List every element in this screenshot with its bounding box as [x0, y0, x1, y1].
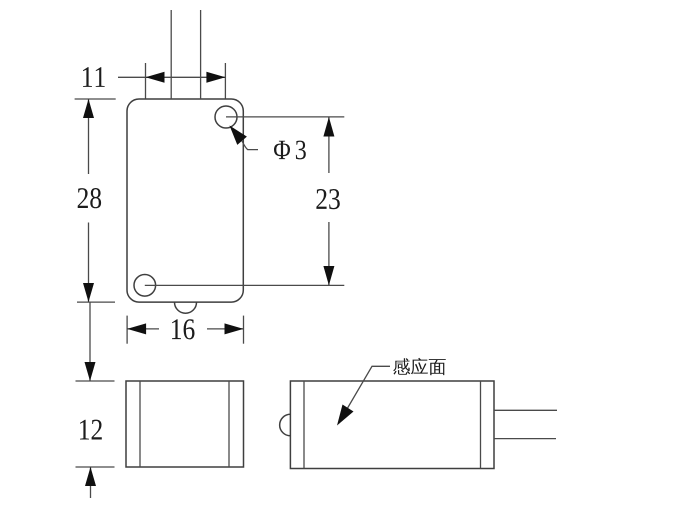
- dimension 12: value label: [80, 420, 102, 440]
- dimension 16: dimension line left segment: [127, 328, 159, 330]
- dimension 11: extension line right: [224, 63, 226, 99]
- dimension 16: left arrowhead: [127, 323, 146, 334]
- dimension 23: bottom arrowhead: [323, 266, 334, 285]
- dimension 11: dimension line: [118, 76, 225, 78]
- dimension 16: right arrowhead: [225, 323, 244, 334]
- leader arrowhead for hole diameter: [230, 126, 247, 145]
- dimension 12: lower tail line: [90, 467, 92, 498]
- dimension 12: upper arrowhead (points down): [85, 362, 96, 381]
- side view right end-cap line: [480, 381, 482, 469]
- dimension 28: top extension line: [75, 98, 116, 100]
- sensing bump on bottom edge of top view: [175, 302, 197, 313]
- leader line for hole diameter: [242, 141, 258, 150]
- dimension 12: lower arrowhead (points up): [85, 467, 96, 486]
- dimension 28: dimension line lower segment: [88, 223, 90, 303]
- side view left end-cap line: [303, 381, 305, 469]
- hole diameter label phi-3: [274, 141, 306, 160]
- dimension 23: dimension line lower segment: [328, 222, 330, 285]
- cable wire right (top view): [200, 10, 202, 99]
- front view body (bottom left): [126, 381, 244, 467]
- side view body (bottom right): [290, 381, 494, 469]
- dimension 12: bottom extension line: [76, 466, 115, 468]
- mounting hole bottom-left: [134, 275, 156, 297]
- dimension 16: dimension line right segment: [207, 328, 244, 330]
- mounting hole top-right: [215, 106, 237, 128]
- leader arrowhead for sensing-face label: [337, 405, 354, 426]
- dimension 16: left extension line: [126, 316, 128, 344]
- dimension 11: right arrowhead: [206, 72, 225, 83]
- dimension 28: bottom extension line: [77, 301, 115, 303]
- dimension 23: dimension line upper segment: [328, 117, 330, 173]
- dimension 28: bottom arrowhead: [83, 283, 94, 302]
- dimension 16: right extension line: [243, 316, 245, 344]
- cable wire left (top view): [170, 10, 172, 99]
- dimension 11: left arrowhead: [146, 72, 165, 83]
- front view right end-cap line: [228, 381, 230, 467]
- sensing-face label (CJK glyph paths): [393, 358, 446, 376]
- dimension 23: top extension line (through top hole center): [226, 116, 344, 118]
- dimension 12: upper tail line: [89, 302, 91, 381]
- dimension 11: extension line left: [145, 63, 147, 99]
- leader line for sensing-face label: [339, 366, 391, 423]
- top view body: [127, 99, 243, 302]
- dimension 12: top extension line: [76, 380, 115, 382]
- dimension 11: value label: [83, 67, 105, 87]
- dimension 16: value label: [172, 319, 195, 339]
- dimension 28: dimension line upper segment: [88, 99, 90, 174]
- output wire lower (side view): [494, 438, 556, 440]
- front view left end-cap line: [139, 381, 141, 467]
- output wire upper (side view): [494, 409, 557, 411]
- dimension 23: bottom extension line (through bottom hole center): [145, 284, 344, 286]
- side view sensing bump (left): [280, 414, 291, 436]
- dimension 23: top arrowhead: [323, 117, 334, 137]
- dimension 28: top arrowhead: [83, 99, 94, 118]
- dimension 23: value label: [316, 189, 339, 209]
- dimension 28: value label: [78, 188, 101, 208]
